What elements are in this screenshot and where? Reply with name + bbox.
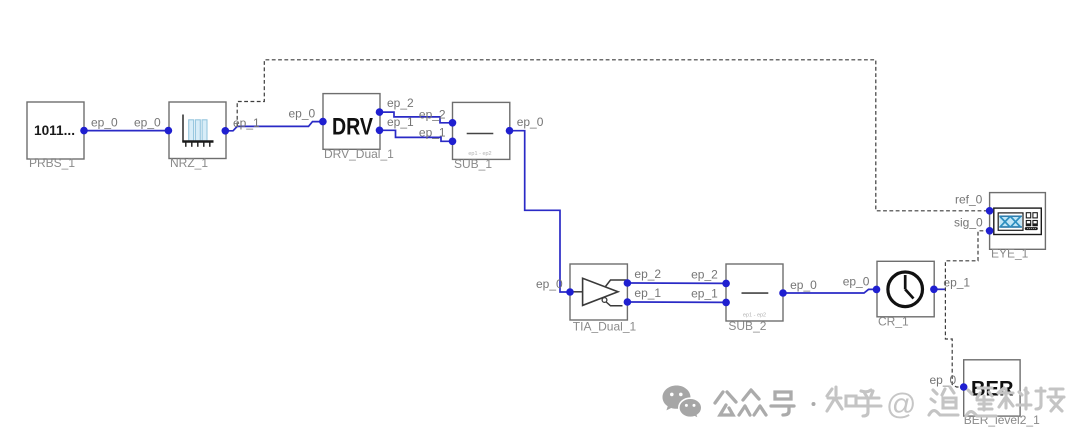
svg-text:CR_1: CR_1 — [878, 315, 909, 329]
svg-text:ep_0: ep_0 — [790, 278, 817, 292]
svg-text:SUB_2: SUB_2 — [728, 319, 766, 333]
svg-text:ep_0: ep_0 — [843, 275, 870, 289]
svg-text:ep_1: ep_1 — [691, 287, 718, 301]
svg-text:ep_0: ep_0 — [536, 277, 563, 291]
svg-text:EYE_1: EYE_1 — [991, 247, 1029, 261]
node NRZ_1.ep_1 — [222, 127, 230, 135]
svg-text:ep1 - ep2: ep1 - ep2 — [743, 313, 766, 319]
svg-text:ref_0: ref_0 — [955, 193, 983, 207]
wire SUB_2.ep_0 to CR_1.ep_0 — [783, 289, 877, 293]
pin label ep_2 at DRV_Dual_1 output — [387, 96, 414, 110]
block SUB_1 — [453, 102, 510, 171]
node SUB_2.ep_1 — [722, 299, 730, 307]
node EYE_1.sig_0 — [986, 227, 994, 235]
svg-text:ep_0: ep_0 — [930, 373, 957, 387]
pin label ep_2 at SUB_1 input — [419, 108, 446, 122]
svg-text:ep_2: ep_2 — [419, 108, 446, 122]
pin label ep_1 at SUB_1 input — [419, 126, 446, 140]
node DRV_Dual_1.ep_0 — [319, 118, 327, 126]
pin label ep_2 at SUB_2 input — [691, 268, 718, 282]
node EYE_1.ref_0 — [986, 207, 994, 215]
pin label ep_1 at CR_1 output — [943, 276, 970, 290]
node DRV_Dual_1.ep_2 — [376, 108, 384, 116]
wire SUB_1.ep_0 to TIA_Dual_1.ep_0 — [510, 131, 571, 292]
svg-text:ep_2: ep_2 — [634, 267, 661, 281]
watermark wechat icon — [663, 386, 702, 419]
svg-text:ep_0: ep_0 — [91, 116, 118, 130]
svg-text:ep_1: ep_1 — [419, 126, 446, 140]
node SUB_1.ep_2 — [449, 119, 457, 127]
node SUB_1.ep_0 — [506, 127, 514, 135]
pin label ep_1 at NRZ_1 output — [233, 116, 260, 130]
svg-text:sig_0: sig_0 — [954, 216, 983, 230]
pin label ep_1 at DRV_Dual_1 output — [387, 115, 414, 129]
svg-text:ep_1: ep_1 — [634, 286, 661, 300]
pin label ep_0 at DRV_Dual_1 input — [289, 106, 316, 120]
pin label ep_0 at BER_level2_1 input — [930, 373, 957, 387]
svg-text:DRV: DRV — [332, 114, 373, 141]
pin label ep_0 at NRZ_1 input — [134, 116, 161, 130]
wire dashed net NRZ_1.ep_1 to EYE_1.ref_0 — [237, 60, 989, 211]
node CR_1.ep_0 — [873, 286, 881, 294]
pin label ep_2 at TIA_Dual_1 output — [634, 267, 661, 281]
svg-text:ep_1: ep_1 — [943, 276, 970, 290]
block CR_1 — [877, 261, 934, 328]
watermark text 公众号 · — [715, 390, 816, 415]
block PRBS_1 — [27, 102, 84, 170]
watermark text 知乎@逍遥科技 — [827, 387, 1064, 421]
block NRZ_1 — [169, 102, 226, 170]
node SUB_2.ep_0 — [779, 289, 787, 297]
svg-text:1011...: 1011... — [34, 123, 75, 138]
svg-text:ep_0: ep_0 — [134, 116, 161, 130]
node TIA_Dual_1.ep_0 — [566, 288, 574, 296]
node NRZ_1.ep_0 — [165, 127, 173, 135]
svg-text:ep_0: ep_0 — [517, 115, 544, 129]
wire NRZ_1.ep_1 to DRV_Dual_1.ep_0 — [225, 122, 323, 131]
svg-text:NRZ_1: NRZ_1 — [170, 156, 208, 170]
wire DRV_Dual_1.ep_2 to SUB_1.ep_2 — [380, 112, 453, 123]
svg-text:TIA_Dual_1: TIA_Dual_1 — [573, 320, 637, 334]
wire TIA_Dual_1.ep_1 to SUB_2.ep_1 — [627, 301, 726, 303]
block BER_level2_1 — [964, 360, 1040, 427]
svg-text:@: @ — [886, 388, 916, 421]
pin label ep_0 at TIA_Dual_1 input — [536, 277, 563, 291]
node SUB_1.ep_1 — [449, 138, 457, 146]
pin label sig_0 at EYE_1 input — [954, 216, 983, 230]
svg-text:DRV_Dual_1: DRV_Dual_1 — [324, 147, 394, 161]
svg-text:ep_1: ep_1 — [233, 116, 260, 130]
svg-text:ep_2: ep_2 — [691, 268, 718, 282]
wire TIA_Dual_1.ep_2 to SUB_2.ep_2 — [627, 282, 726, 284]
node PRBS_1.ep_0 — [80, 127, 88, 135]
pin label ep_1 at TIA_Dual_1 output — [634, 286, 661, 300]
node TIA_Dual_1.ep_1 — [624, 298, 632, 306]
pin label ref_0 at EYE_1 input — [955, 193, 983, 207]
block TIA_Dual_1 — [570, 264, 636, 334]
node SUB_2.ep_2 — [722, 280, 730, 288]
node TIA_Dual_1.ep_2 — [624, 279, 632, 287]
svg-text:SUB_1: SUB_1 — [454, 157, 492, 171]
pin label ep_0 at SUB_1 output — [517, 115, 544, 129]
node CR_1.ep_1 — [930, 286, 938, 294]
node BER_level2_1.ep_0 — [960, 383, 968, 391]
svg-text:PRBS_1: PRBS_1 — [29, 156, 75, 170]
svg-text:ep_2: ep_2 — [387, 96, 414, 110]
pin label ep_0 at PRBS_1 output — [91, 116, 118, 130]
pin label ep_0 at SUB_2 output — [790, 278, 817, 292]
block SUB_2 — [726, 264, 783, 333]
wire DRV_Dual_1.ep_1 to SUB_1.ep_1 — [380, 130, 453, 141]
wire PRBS_1.ep_0 to NRZ_1.ep_0 — [84, 130, 168, 132]
svg-text:ep_0: ep_0 — [289, 106, 316, 120]
wire dashed net EYE_1.sig_0 to CR_1.ep_1 and BER_level2_1.ep_0 — [945, 231, 989, 387]
node DRV_Dual_1.ep_1 — [376, 127, 384, 135]
pin label ep_0 at CR_1 input — [843, 275, 870, 289]
block DRV_Dual_1 — [323, 94, 394, 161]
pin label ep_1 at SUB_2 input — [691, 287, 718, 301]
wire CR_1.ep_1 stub to dashed net junction — [934, 288, 946, 290]
svg-text:ep_1: ep_1 — [387, 115, 414, 129]
block EYE_1 — [990, 193, 1046, 261]
